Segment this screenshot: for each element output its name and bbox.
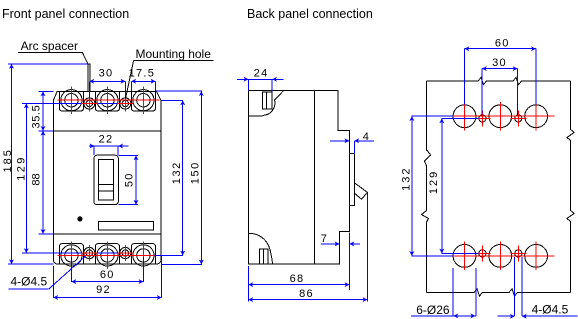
svg-text:60: 60 bbox=[100, 269, 115, 281]
bottom terminal screw side bbox=[260, 249, 269, 264]
back panel left edge with breaks bbox=[422, 81, 431, 292]
crosshair H4 bbox=[117, 245, 134, 261]
crosshair H1 bbox=[81, 96, 98, 112]
crosshair T4 bbox=[70, 242, 72, 270]
crosshair B3 bbox=[535, 102, 537, 131]
terminal pad T1 top bbox=[59, 91, 83, 111]
top shroud base line bbox=[249, 115, 263, 117]
svg-text:24: 24 bbox=[254, 67, 269, 79]
handle grip line 1 bbox=[98, 183, 113, 185]
switch window bbox=[94, 155, 118, 205]
dimension 129 back bbox=[428, 118, 479, 253]
crosshair B6 bbox=[464, 242, 466, 271]
svg-text:Arc spacer: Arc spacer bbox=[21, 39, 78, 53]
centerline top terminals bbox=[58, 99, 160, 101]
leader mounting hole bbox=[126, 47, 214, 98]
side view outline bbox=[249, 91, 350, 265]
rear connection bar bbox=[349, 154, 354, 206]
svg-text:Back panel connection: Back panel connection bbox=[247, 7, 373, 21]
rear connection stud bbox=[354, 183, 367, 200]
dimension 132 front bbox=[154, 100, 183, 255]
back panel top edge with breaks bbox=[427, 78, 571, 85]
dimension 4-dia4.5 back bbox=[498, 257, 578, 316]
crosshair H3 bbox=[81, 245, 98, 261]
svg-text:86: 86 bbox=[299, 288, 314, 300]
extension line arc spacer top bbox=[8, 63, 88, 65]
svg-text:Front panel connection: Front panel connection bbox=[2, 7, 129, 21]
svg-text:50: 50 bbox=[123, 172, 135, 187]
svg-text:4-Ø4.5: 4-Ø4.5 bbox=[532, 302, 569, 316]
dimension 7 bbox=[321, 233, 360, 290]
dimension 30 top bbox=[89, 67, 125, 98]
rear mounting hole B4 bbox=[479, 115, 486, 122]
dimension 185 bbox=[2, 64, 14, 264]
rear mounting hole B10 bbox=[515, 250, 522, 257]
svg-text:7: 7 bbox=[321, 233, 328, 245]
terminal screw T6 bbox=[133, 245, 154, 266]
extension line bottom mounting holes bbox=[22, 252, 127, 254]
terminal screw T2 bbox=[97, 90, 118, 111]
svg-text:129: 129 bbox=[16, 155, 28, 181]
svg-text:132: 132 bbox=[171, 161, 183, 184]
dimension 129 bbox=[16, 104, 28, 254]
svg-text:30: 30 bbox=[492, 57, 507, 69]
dimension 50 bbox=[118, 155, 138, 204]
extension line top mounting holes bbox=[22, 103, 127, 105]
extension line bottom face left bbox=[39, 233, 54, 235]
crosshair B9 bbox=[475, 246, 491, 262]
rear mounting hole B5 bbox=[515, 115, 522, 122]
dimension 92 bbox=[53, 255, 161, 298]
rear terminal B7 bbox=[489, 245, 512, 268]
label window bbox=[98, 222, 153, 230]
top terminal screw side bbox=[263, 92, 272, 109]
mounting hole H3 bottom bbox=[84, 247, 95, 258]
svg-text:150: 150 bbox=[189, 161, 201, 184]
crosshair B10 bbox=[511, 246, 527, 262]
terminal pad T2 top bbox=[95, 91, 119, 111]
crosshair B2 bbox=[499, 102, 501, 131]
terminal pad T5 bottom bbox=[95, 244, 119, 265]
terminal pad T6 bottom bbox=[131, 244, 155, 265]
dimension 132 back bbox=[401, 116, 453, 256]
svg-text:4: 4 bbox=[363, 131, 370, 143]
terminal screw T3 bbox=[133, 90, 154, 111]
back panel right edge with breaks bbox=[567, 81, 574, 292]
crosshair B8 bbox=[535, 242, 537, 271]
crosshair T6 bbox=[142, 242, 144, 270]
mounting hole H2 top bbox=[120, 98, 131, 109]
rear terminal B1 bbox=[453, 105, 476, 128]
top face line bbox=[53, 130, 161, 132]
svg-text:68: 68 bbox=[290, 273, 305, 285]
terminal screw T4 bbox=[61, 245, 82, 266]
centerline back bottom row bbox=[447, 255, 555, 257]
crosshair B5 bbox=[511, 111, 527, 127]
dimension 60 bottom bbox=[71, 257, 143, 282]
crosshair H2 bbox=[117, 96, 134, 112]
breaker body outline front view bbox=[53, 91, 161, 264]
rear terminal B6 bbox=[453, 245, 476, 268]
dimension 24 bbox=[237, 67, 284, 92]
svg-text:129: 129 bbox=[428, 170, 440, 194]
crosshair T2 bbox=[106, 87, 108, 115]
centerline bottom terminals bbox=[58, 254, 155, 256]
indicator dot bbox=[77, 216, 82, 221]
dimension 6-dia26 bbox=[411, 268, 476, 317]
rear terminal B3 bbox=[525, 105, 548, 128]
crosshair B1 bbox=[464, 102, 466, 131]
dimension 68 bbox=[248, 266, 349, 302]
dimension 60 back bbox=[465, 37, 536, 104]
bottom shroud profile bbox=[249, 233, 273, 264]
back panel bottom edge with breaks bbox=[427, 289, 571, 296]
svg-text:88: 88 bbox=[31, 173, 43, 185]
crosshair T3 bbox=[142, 87, 144, 115]
extension line top face left bbox=[39, 130, 54, 132]
svg-text:4-Ø4.5: 4-Ø4.5 bbox=[11, 275, 48, 289]
extension line bottom edge left bbox=[8, 263, 53, 265]
svg-text:30: 30 bbox=[99, 67, 114, 79]
centerline back top row bbox=[447, 115, 555, 117]
leader 4-dia4.5 front bbox=[9, 256, 86, 289]
switch handle bbox=[98, 160, 113, 201]
dimension 86 bbox=[248, 192, 367, 301]
svg-text:Mounting hole: Mounting hole bbox=[136, 47, 212, 61]
svg-text:60: 60 bbox=[495, 37, 510, 49]
top terminal shroud profile bbox=[263, 91, 284, 116]
svg-text:17.5: 17.5 bbox=[129, 67, 156, 79]
side view face plane line bbox=[313, 91, 315, 265]
dimension 150 front bbox=[156, 91, 202, 264]
rear terminal B8 bbox=[525, 245, 548, 268]
svg-text:6-Ø26: 6-Ø26 bbox=[416, 303, 450, 317]
dimension 35.5 bbox=[30, 91, 43, 130]
svg-text:92: 92 bbox=[96, 284, 111, 296]
crosshair T5 bbox=[106, 242, 108, 270]
terminal pad T3 top bbox=[131, 91, 155, 111]
handle grip line 2 bbox=[98, 190, 113, 192]
crosshair B7 bbox=[499, 242, 501, 271]
dimension 30 back bbox=[482, 57, 518, 115]
terminal screw T5 bbox=[97, 245, 118, 266]
leader arc spacer bbox=[18, 39, 88, 64]
dimension 88 bbox=[31, 131, 44, 234]
dimension 4 bbox=[330, 131, 374, 154]
svg-text:35.5: 35.5 bbox=[30, 105, 42, 129]
crosshair T1 bbox=[70, 87, 72, 115]
svg-text:22: 22 bbox=[99, 134, 114, 146]
terminal pad T4 bottom bbox=[59, 244, 83, 265]
dimension 22 bbox=[89, 134, 129, 156]
extension line block top left bbox=[39, 90, 54, 92]
crosshair B4 bbox=[475, 111, 491, 127]
bottom face line bbox=[53, 233, 161, 235]
svg-text:132: 132 bbox=[401, 167, 413, 191]
arc spacer plate bbox=[88, 64, 90, 92]
mounting hole H4 bottom bbox=[120, 247, 131, 258]
mounting hole H1 top bbox=[84, 98, 95, 109]
terminal screw T1 bbox=[61, 90, 82, 111]
svg-text:185: 185 bbox=[2, 148, 14, 172]
dimension 17.5 bbox=[129, 67, 156, 91]
rear mounting hole B9 bbox=[479, 250, 486, 257]
rear terminal B2 bbox=[489, 105, 512, 128]
